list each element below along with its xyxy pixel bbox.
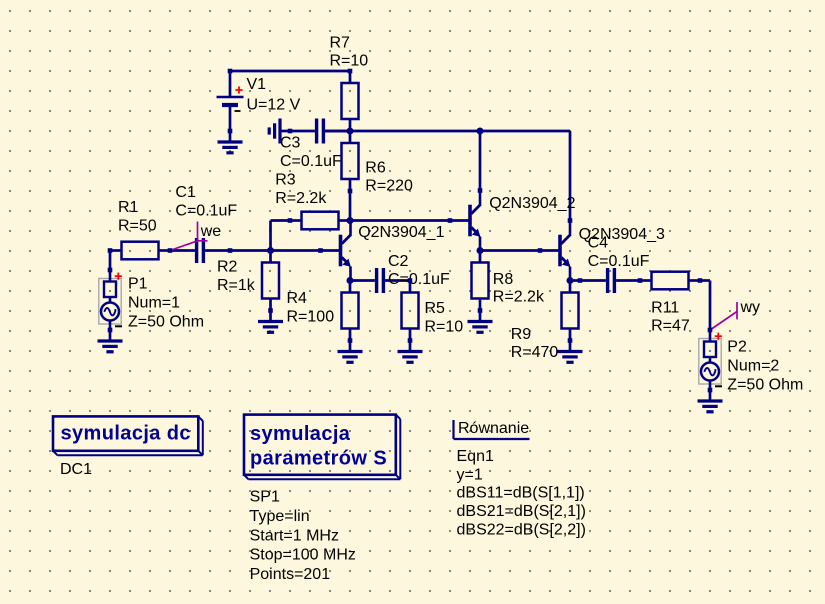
wire node (568, 218, 573, 223)
svg-text:R=220: R=220 (365, 177, 413, 194)
transistor Q2N3904_1 (321, 221, 445, 281)
svg-text:Równanie: Równanie (458, 420, 529, 437)
capacitor C4 (580, 235, 650, 294)
svg-text:Z=50 Ohm: Z=50 Ohm (128, 314, 204, 331)
port P1 (99, 270, 204, 331)
node junction (347, 277, 354, 284)
wire node (538, 248, 543, 253)
resistor R2 (217, 251, 279, 311)
wire node (408, 278, 413, 283)
svg-text:Q2N3904_1: Q2N3904_1 (358, 224, 444, 241)
wire node (108, 268, 113, 273)
port P2 (699, 330, 804, 394)
wire base node to Q1 (271, 249, 321, 252)
svg-text:DC1: DC1 (60, 461, 92, 478)
wire node (228, 69, 233, 74)
wire R3 left (271, 221, 291, 251)
wire node (228, 129, 233, 134)
wire Q3 emitter to C4 (570, 279, 580, 282)
svg-text:R9: R9 (511, 326, 532, 343)
svg-text:C2: C2 (388, 253, 409, 270)
svg-text:R=10: R=10 (425, 319, 464, 336)
svg-text:Z=50 Ohm: Z=50 Ohm (727, 377, 803, 394)
wire node (568, 338, 573, 343)
svg-text:parametrów S: parametrów S (250, 448, 387, 470)
wire Vcc top (230, 70, 350, 73)
capacitor C1 (170, 184, 237, 263)
dc simulation box (53, 416, 203, 478)
svg-text:R=10: R=10 (330, 53, 369, 70)
transistor Q2N3904_2 (450, 191, 576, 251)
wire collector node to Q2 base (350, 219, 450, 222)
svg-text:C=0.1uF: C=0.1uF (175, 203, 237, 220)
ground below R5 (398, 341, 423, 363)
svg-text:Stop=100 MHz: Stop=100 MHz (250, 547, 356, 564)
svg-text:R11: R11 (651, 300, 679, 317)
svg-text:V1: V1 (247, 76, 267, 93)
svg-text:R=50: R=50 (118, 217, 157, 234)
svg-text:C4: C4 (588, 235, 609, 252)
svg-text:R=2.2k: R=2.2k (493, 289, 545, 306)
wire node (708, 328, 713, 333)
wire node (288, 129, 293, 134)
svg-text:R3: R3 (275, 172, 296, 189)
svg-text:we: we (200, 223, 222, 240)
svg-text:C3: C3 (280, 135, 301, 152)
ground below P1 (98, 330, 123, 352)
svg-text:Num=2: Num=2 (727, 358, 779, 375)
svg-text:R5: R5 (425, 300, 446, 317)
ground below R8 (468, 311, 493, 333)
ground below R9 (558, 341, 583, 363)
svg-text:R7: R7 (330, 35, 351, 52)
svg-text:Points=201: Points=201 (250, 566, 331, 583)
svg-text:Eqn1: Eqn1 (457, 448, 494, 465)
wire Vcc rail (325, 130, 570, 133)
ground below V1 (218, 131, 243, 153)
wire node (408, 338, 413, 343)
svg-text:P1: P1 (128, 276, 148, 293)
wire node (168, 248, 173, 253)
resistor R3 (275, 172, 350, 230)
wire node (288, 218, 293, 223)
svg-text:dBS11=dB(S[1,1]): dBS11=dB(S[1,1]) (457, 485, 585, 502)
wire node (108, 248, 113, 253)
svg-text:symulacja: symulacja (250, 423, 351, 445)
resistor R5 (402, 281, 464, 341)
node wy (710, 299, 760, 330)
svg-text:C=0.1uF: C=0.1uF (280, 153, 342, 170)
wire R1 to P1 (109, 251, 112, 271)
resistor R8 (472, 251, 545, 311)
wire node (268, 308, 273, 313)
svg-text:C1: C1 (175, 184, 196, 201)
wire node (708, 388, 713, 393)
wire node (348, 189, 353, 194)
wire R6 to collector node (349, 191, 352, 221)
wire node (108, 328, 113, 333)
wire Q3 collector drop (569, 131, 572, 221)
svg-text:R=1k: R=1k (217, 277, 256, 294)
wire node (698, 278, 703, 283)
node junction (477, 247, 484, 254)
node junction (347, 217, 354, 224)
svg-text:R=47: R=47 (651, 318, 690, 335)
wire node (348, 338, 353, 343)
capacitor C2 (350, 253, 450, 293)
resistor R7 (330, 35, 369, 132)
resistor R4 (287, 281, 359, 341)
wire Q2 collector drop (479, 131, 482, 191)
svg-text:Start=1 MHz: Start=1 MHz (250, 527, 339, 544)
wire node (318, 248, 323, 253)
svg-text:R6: R6 (365, 160, 386, 177)
svg-text:U=12 V: U=12 V (247, 96, 301, 113)
svg-text:R4: R4 (287, 290, 308, 307)
transistor Q2N3904_3 (540, 221, 665, 281)
ground below R2 (258, 311, 283, 333)
svg-text:Type=lin: Type=lin (250, 508, 310, 525)
svg-text:C=0.1uF: C=0.1uF (388, 271, 450, 288)
svg-text:R8: R8 (493, 271, 514, 288)
svg-text:dBS22=dB(S[2,2]): dBS22=dB(S[2,2]) (457, 522, 586, 539)
capacitor C3 (280, 119, 350, 171)
svg-text:C=0.1uF: C=0.1uF (588, 253, 650, 270)
svg-text:R=2.2k: R=2.2k (275, 190, 327, 207)
svg-text:P2: P2 (727, 339, 747, 356)
svg-text:R=470: R=470 (511, 344, 559, 361)
wire Q2 emitter to Q3 base (480, 249, 540, 252)
svg-text:R2: R2 (217, 259, 238, 276)
wire node (448, 218, 453, 223)
svg-text:symulacja dc: symulacja dc (61, 423, 191, 445)
resistor R11 (640, 272, 700, 335)
wire R11 to P2 (700, 281, 710, 331)
node junction (477, 128, 484, 135)
wire C1 to base node (230, 249, 271, 252)
resistor R9 (511, 281, 579, 362)
ground below R4 (338, 341, 363, 363)
ground at C3 (269, 119, 290, 144)
node junction (567, 277, 574, 284)
wire node (228, 248, 233, 253)
node junction (267, 247, 274, 254)
wire node (348, 69, 353, 74)
equation Eqn1 (454, 420, 586, 539)
wire node (578, 278, 583, 283)
svg-text:wy: wy (740, 299, 761, 316)
wire node (478, 308, 483, 313)
svg-text:y=1: y=1 (457, 467, 483, 484)
svg-text:Num=1: Num=1 (128, 295, 180, 312)
voltage source V1 (217, 71, 301, 131)
svg-text:dBS21=dB(S[2,1]): dBS21=dB(S[2,1]) (457, 503, 586, 520)
s-parameter simulation box (244, 415, 400, 583)
svg-text:R=100: R=100 (287, 309, 335, 326)
svg-text:Q2N3904_2: Q2N3904_2 (489, 195, 575, 212)
svg-text:SP1: SP1 (250, 489, 280, 506)
svg-text:R1: R1 (118, 199, 139, 216)
node junction (347, 128, 354, 135)
resistor R1 (110, 199, 170, 259)
wire node (478, 188, 483, 193)
resistor R6 (342, 131, 413, 194)
wire node (638, 278, 643, 283)
node we (170, 222, 221, 251)
ground below P2 (698, 390, 723, 412)
